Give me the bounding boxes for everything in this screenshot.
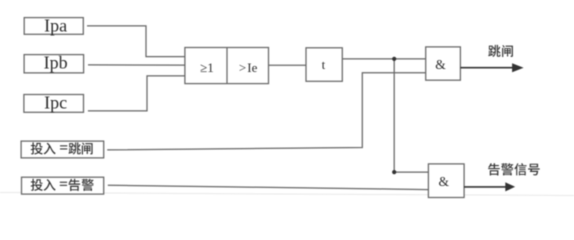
input box 投入=跳闸	[21, 141, 104, 158]
svg-text:t: t	[322, 57, 326, 72]
wire 投入=告警 to AND U4	[108, 185, 429, 189]
label char 警 (box 投入=告警)	[82, 179, 94, 191]
equals sign in 投入=告警	[60, 182, 67, 186]
OR gate U1 ≥1 with comparator >Ie	[185, 48, 269, 84]
svg-text:>: >	[239, 60, 246, 75]
label char 投 (box 投入=告警)	[31, 179, 43, 191]
svg-text:Ipb: Ipb	[44, 53, 68, 73]
label char 入 (box 投入=跳闸)	[44, 143, 56, 155]
faint table rule	[0, 193, 574, 196]
arrow 跳闸 output	[460, 63, 523, 72]
net label char 跳 (跳闸)	[488, 45, 500, 57]
wire t output to AND U3	[342, 58, 425, 60]
svg-text:Ie: Ie	[247, 60, 257, 75]
AND gate U4	[428, 164, 464, 198]
net label char 警 (告警信号)	[501, 163, 513, 175]
svg-text:&: &	[439, 174, 450, 189]
wire Ipb to OR gate	[88, 64, 185, 66]
wire Ipc to OR gate	[88, 76, 185, 111]
input box Ipc	[24, 95, 84, 113]
AND gate U3	[426, 47, 461, 80]
input box 投入=告警	[22, 177, 104, 194]
junction dot at AND U4 branch	[392, 170, 396, 174]
wire 投入=跳闸 to AND U3	[107, 73, 426, 150]
net label char 号 (告警信号)	[528, 164, 540, 176]
timer U2 t	[306, 48, 342, 82]
svg-text:Ipc: Ipc	[44, 93, 67, 113]
wire Ipa to OR gate	[87, 26, 185, 57]
wire OR/>Ie to t	[269, 64, 307, 66]
svg-text:≥1: ≥1	[200, 60, 214, 75]
input box Ipa	[24, 18, 83, 35]
arrow 告警信号 output	[464, 182, 515, 191]
label char 投 (box 投入=跳闸)	[31, 142, 43, 154]
junction dot at t output	[392, 57, 396, 61]
equals sign in 投入=跳闸	[60, 145, 67, 149]
label char 告 (box 投入=告警)	[69, 179, 81, 191]
label char 入 (box 投入=告警)	[44, 179, 56, 191]
wire junction drop to AND U4	[394, 59, 428, 172]
net label char 信 (告警信号)	[514, 163, 526, 175]
net label char 闸 (跳闸)	[502, 45, 513, 57]
svg-text:Ipa: Ipa	[44, 16, 67, 36]
input box Ipb	[24, 55, 84, 73]
svg-text:&: &	[435, 57, 446, 72]
label char 跳 (box 投入=跳闸)	[69, 142, 81, 154]
net label char 告 (告警信号)	[488, 163, 500, 175]
label char 闸 (box 投入=跳闸)	[82, 143, 93, 155]
